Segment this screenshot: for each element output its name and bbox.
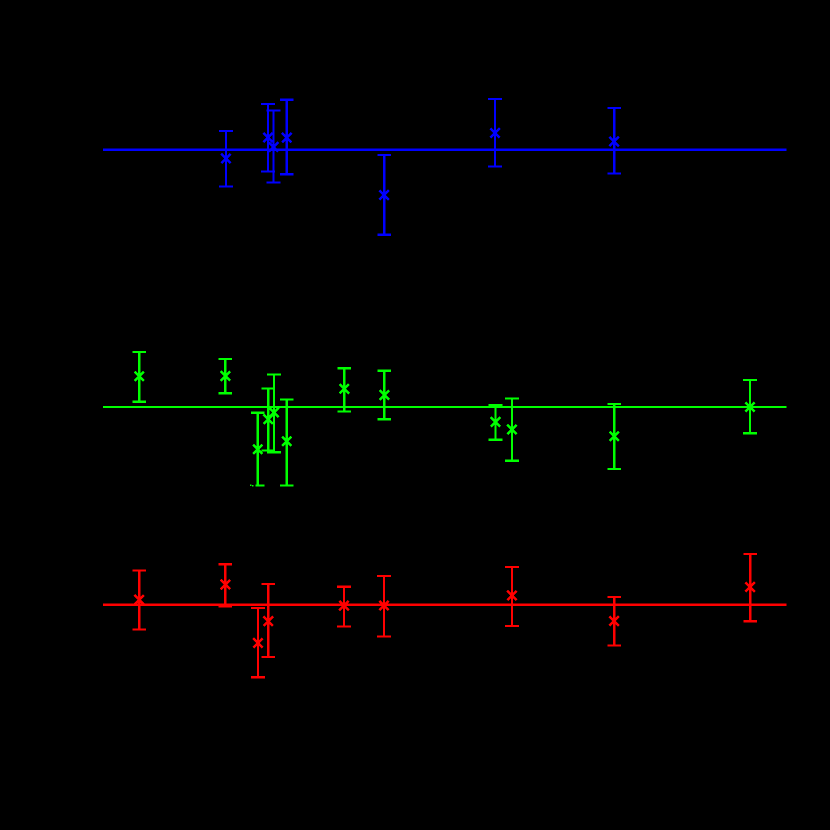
red point 8 error bar [607,597,621,646]
blue point 5 error bar [377,155,391,235]
blue point 1 error bar [219,131,233,187]
green point 4 marker [264,415,273,424]
blue point 2 error bar [261,104,275,171]
green point 4 error bar [261,389,275,451]
blue point 5 marker [380,190,389,199]
green point 3 marker [253,445,262,454]
green point 12 marker [745,402,754,411]
blue point 3 error bar [267,110,281,182]
red point 5 marker [339,601,348,610]
blue point 1 marker [221,154,230,163]
red point 6 marker [379,601,388,610]
red point 1 marker [135,595,144,604]
green point 8 marker [380,390,389,399]
red point 7 marker [507,591,516,600]
red point 6 error bar [377,576,391,637]
blue point 3 marker [269,142,278,151]
green series fit line [103,406,787,408]
blue point 6 error bar [488,99,502,166]
blue point 2 marker [263,133,272,142]
green point 6 error bar [280,399,294,485]
green point 7 error bar [337,368,351,411]
red point 2 error bar [218,564,232,606]
green point 2 error bar [218,359,232,393]
green point 9 marker [491,417,500,426]
green point 3 error bar [251,413,265,486]
red point 7 error bar [505,567,519,626]
blue series fit line [103,149,787,151]
green point 10 error bar [505,399,519,461]
red point 3 error bar [251,608,265,677]
red point 8 marker [610,616,619,625]
green point 11 error bar [607,404,621,469]
red point 9 error bar [743,554,757,621]
red point 4 error bar [261,584,275,657]
blue point 7 marker [610,137,619,146]
green point 8 error bar [377,371,391,420]
red point 3 marker [253,638,262,647]
green point 10 marker [507,425,516,434]
green point 2 marker [221,371,230,380]
green point 11 marker [610,432,619,441]
red point 2 marker [221,580,230,589]
green point 6 marker [282,437,291,446]
red point 1 error bar [132,571,146,630]
red point 5 error bar [337,587,351,627]
blue point 6 marker [490,128,499,137]
blue point 4 marker [282,133,291,142]
blue point 7 error bar [607,108,621,173]
green point 7 marker [340,384,349,393]
red point 9 marker [746,582,755,591]
green point 9 error bar [489,405,503,440]
green point 5 marker [269,408,278,417]
green point 12 error bar [743,380,757,433]
green point 5 error bar [267,375,281,453]
red point 4 marker [264,616,273,625]
green point 1 marker [135,372,144,381]
green point 1 error bar [132,352,146,402]
blue point 4 error bar [280,100,294,174]
red series fit line [103,604,787,606]
